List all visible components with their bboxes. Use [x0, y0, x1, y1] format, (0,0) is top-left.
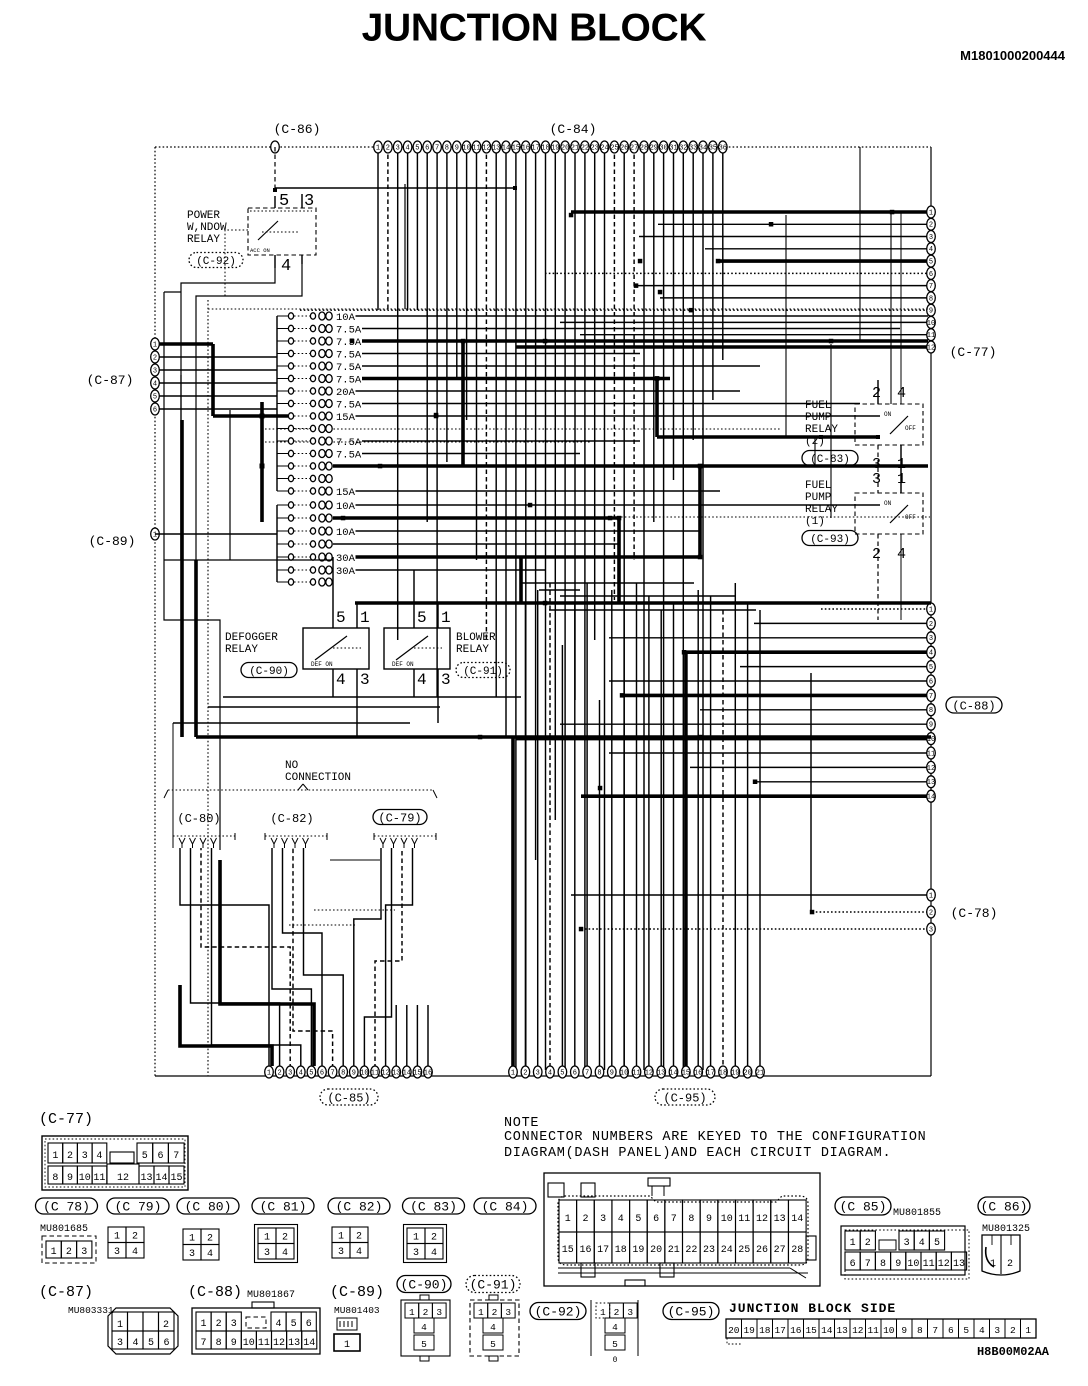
svg-text:8: 8	[929, 295, 933, 303]
svg-text:11: 11	[927, 750, 935, 758]
svg-text:(C-91): (C-91)	[470, 1278, 517, 1293]
svg-text:14: 14	[502, 144, 510, 152]
svg-text:10: 10	[360, 1069, 368, 1077]
svg-text:1: 1	[413, 1233, 419, 1244]
svg-text:5: 5	[415, 144, 419, 152]
svg-text:4: 4	[356, 1247, 362, 1258]
svg-text:PUMP: PUMP	[805, 492, 832, 504]
svg-text:8: 8	[929, 707, 933, 715]
svg-text:2: 2	[132, 1232, 138, 1243]
svg-text:(C-79): (C-79)	[378, 811, 421, 825]
svg-text:(C 78): (C 78)	[43, 1200, 90, 1215]
svg-text:9: 9	[895, 1259, 901, 1270]
svg-text:FUEL: FUEL	[805, 400, 831, 412]
svg-text:16: 16	[424, 1069, 432, 1077]
svg-text:3: 3	[82, 1151, 88, 1162]
svg-text:11: 11	[923, 1259, 935, 1270]
svg-text:14: 14	[927, 794, 935, 802]
svg-text:(C-87): (C-87)	[87, 373, 134, 388]
svg-text:2: 2	[872, 546, 881, 563]
svg-text:2: 2	[872, 385, 881, 402]
svg-text:2: 2	[423, 1307, 429, 1318]
svg-text:4: 4	[281, 257, 291, 276]
svg-text:(C-92): (C-92)	[196, 256, 236, 268]
svg-text:3: 3	[81, 1247, 87, 1258]
svg-text:12: 12	[381, 1069, 389, 1077]
svg-text:12: 12	[273, 1338, 285, 1349]
svg-text:7: 7	[929, 283, 933, 291]
svg-text:5: 5	[929, 664, 933, 672]
svg-text:10: 10	[620, 1069, 628, 1077]
svg-text:(C 84): (C 84)	[482, 1200, 529, 1215]
svg-text:1: 1	[376, 144, 380, 152]
svg-text:FUEL: FUEL	[805, 480, 831, 492]
svg-text:3: 3	[929, 635, 933, 643]
svg-text:12: 12	[852, 1325, 864, 1336]
svg-text:(C 79): (C 79)	[115, 1200, 162, 1215]
svg-text:(1): (1)	[805, 516, 825, 528]
svg-text:6: 6	[153, 406, 157, 414]
svg-text:25: 25	[610, 144, 618, 152]
svg-text:RELAY: RELAY	[805, 504, 838, 516]
svg-text:1: 1	[929, 209, 933, 217]
svg-text:29: 29	[650, 144, 658, 152]
svg-text:13: 13	[288, 1338, 300, 1349]
svg-text:RELAY: RELAY	[187, 234, 220, 246]
svg-text:3: 3	[441, 671, 451, 689]
svg-text:(C-89): (C-89)	[330, 1284, 384, 1301]
svg-text:3: 3	[360, 671, 370, 689]
svg-text:4: 4	[612, 1322, 618, 1333]
svg-text:13: 13	[492, 144, 500, 152]
svg-text:2: 2	[207, 1234, 213, 1245]
svg-text:(C-88): (C-88)	[952, 699, 995, 713]
svg-text:18: 18	[759, 1325, 771, 1336]
svg-text:(C-90): (C-90)	[249, 666, 289, 678]
svg-text:1: 1	[344, 1340, 350, 1351]
svg-text:1: 1	[478, 1307, 484, 1318]
svg-text:9: 9	[231, 1338, 237, 1349]
svg-text:16: 16	[790, 1325, 802, 1336]
svg-text:16: 16	[694, 1069, 702, 1077]
svg-text:PUMP: PUMP	[805, 412, 832, 424]
svg-text:2: 2	[1010, 1325, 1016, 1336]
svg-text:DEFOGGER: DEFOGGER	[225, 632, 278, 644]
svg-text:16: 16	[522, 144, 530, 152]
svg-text:POWER: POWER	[187, 210, 220, 222]
svg-text:4: 4	[299, 1069, 303, 1077]
svg-text:4: 4	[275, 1319, 281, 1330]
svg-text:2: 2	[163, 1320, 169, 1331]
svg-text:4: 4	[336, 671, 346, 689]
svg-text:7.5A: 7.5A	[336, 350, 362, 362]
svg-text:(C-78): (C-78)	[951, 906, 998, 921]
svg-text:14: 14	[155, 1173, 167, 1184]
svg-text:BLOWER: BLOWER	[456, 632, 496, 644]
svg-text:2: 2	[66, 1247, 72, 1258]
svg-text:(C-77): (C-77)	[39, 1111, 93, 1128]
svg-text:13: 13	[392, 1069, 400, 1077]
svg-text:11: 11	[371, 1069, 379, 1077]
svg-text:4: 4	[897, 385, 906, 402]
svg-text:2: 2	[386, 144, 390, 152]
svg-text:35: 35	[709, 144, 717, 152]
svg-text:4: 4	[431, 1248, 437, 1259]
svg-text:26: 26	[620, 144, 628, 152]
svg-text:1: 1	[338, 1232, 344, 1243]
svg-text:17: 17	[706, 1069, 714, 1077]
svg-text:3: 3	[872, 471, 881, 488]
svg-text:7: 7	[173, 1151, 179, 1162]
svg-text:13: 13	[657, 1069, 665, 1077]
svg-text:9: 9	[901, 1325, 907, 1336]
svg-text:DIAGRAM(DASH PANEL)AND EACH CI: DIAGRAM(DASH PANEL)AND EACH CIRCUIT DIAG…	[504, 1146, 891, 1161]
svg-text:10: 10	[79, 1173, 91, 1184]
svg-text:(C 81): (C 81)	[260, 1200, 307, 1215]
svg-text:7: 7	[435, 144, 439, 152]
svg-text:3: 3	[264, 1248, 270, 1259]
svg-text:34: 34	[699, 144, 707, 152]
svg-text:9: 9	[610, 1069, 614, 1077]
svg-text:6: 6	[653, 1214, 659, 1225]
svg-text:21: 21	[571, 144, 579, 152]
svg-text:M1801000200444: M1801000200444	[960, 48, 1066, 63]
svg-text:9: 9	[929, 308, 933, 316]
svg-text:17: 17	[597, 1245, 609, 1256]
svg-text:24: 24	[600, 144, 608, 152]
svg-text:5: 5	[153, 393, 157, 401]
svg-text:8: 8	[52, 1173, 58, 1184]
svg-text:(C-89): (C-89)	[89, 534, 136, 549]
svg-text:1: 1	[600, 1307, 606, 1318]
svg-text:10: 10	[243, 1338, 255, 1349]
svg-text:23: 23	[703, 1245, 715, 1256]
svg-text:16: 16	[579, 1245, 591, 1256]
svg-text:2: 2	[1007, 1259, 1013, 1270]
svg-text:5: 5	[148, 1338, 154, 1349]
svg-text:19: 19	[551, 144, 559, 152]
svg-text:2: 2	[153, 354, 157, 362]
svg-text:2: 2	[523, 1069, 527, 1077]
svg-text:14: 14	[303, 1338, 315, 1349]
svg-text:7.5A: 7.5A	[336, 400, 362, 412]
svg-text:5: 5	[142, 1151, 148, 1162]
svg-text:9: 9	[455, 144, 459, 152]
svg-text:13: 13	[836, 1325, 848, 1336]
svg-text:2: 2	[282, 1233, 288, 1244]
svg-text:12: 12	[645, 1069, 653, 1077]
svg-text:3: 3	[436, 1307, 442, 1318]
svg-text:1: 1	[200, 1319, 206, 1330]
svg-text:JUNCTION BLOCK: JUNCTION BLOCK	[362, 7, 707, 50]
svg-text:19: 19	[632, 1245, 644, 1256]
svg-text:4: 4	[417, 671, 427, 689]
svg-text:31: 31	[669, 144, 677, 152]
svg-text:6: 6	[320, 1069, 324, 1077]
svg-text:17: 17	[774, 1325, 785, 1336]
svg-text:4: 4	[979, 1325, 985, 1336]
svg-text:(C 86): (C 86)	[981, 1200, 1028, 1215]
svg-text:15A: 15A	[336, 487, 356, 499]
svg-text:1: 1	[51, 1247, 57, 1258]
svg-text:4: 4	[919, 1238, 925, 1249]
svg-text:MU801325: MU801325	[982, 1224, 1030, 1235]
svg-text:(C-95): (C-95)	[663, 1091, 706, 1105]
svg-text:3: 3	[929, 926, 933, 934]
svg-text:8: 8	[688, 1214, 694, 1225]
svg-text:4: 4	[132, 1338, 138, 1349]
svg-text:5: 5	[291, 1319, 297, 1330]
svg-text:H8B00M02AA: H8B00M02AA	[977, 1345, 1050, 1359]
svg-text:(C-80): (C-80)	[177, 812, 220, 826]
svg-text:8: 8	[597, 1069, 601, 1077]
svg-text:2: 2	[614, 1307, 620, 1318]
svg-text:11: 11	[93, 1173, 105, 1184]
svg-text:12: 12	[117, 1173, 129, 1184]
svg-text:13: 13	[927, 779, 935, 787]
svg-text:18: 18	[719, 1069, 727, 1077]
svg-text:10A: 10A	[336, 312, 356, 324]
svg-text:30A: 30A	[336, 566, 356, 578]
svg-text:(C-91): (C-91)	[463, 666, 503, 678]
svg-text:ON: ON	[884, 411, 892, 418]
svg-text:7.5A: 7.5A	[336, 375, 362, 387]
svg-text:CONNECTOR NUMBERS ARE KEYED TO: CONNECTOR NUMBERS ARE KEYED TO THE CONFI…	[504, 1130, 926, 1145]
svg-text:26: 26	[756, 1245, 768, 1256]
svg-text:6: 6	[157, 1151, 163, 1162]
svg-text:1: 1	[267, 1069, 271, 1077]
svg-text:MU803331: MU803331	[68, 1305, 114, 1316]
svg-text:13: 13	[953, 1259, 965, 1270]
svg-text:11: 11	[867, 1325, 879, 1336]
svg-text:4: 4	[96, 1151, 102, 1162]
svg-text:7: 7	[929, 693, 933, 701]
svg-text:15: 15	[562, 1245, 574, 1256]
svg-text:NO: NO	[285, 760, 299, 772]
svg-text:2: 2	[431, 1233, 437, 1244]
svg-text:RELAY: RELAY	[225, 644, 258, 656]
svg-text:4: 4	[618, 1214, 624, 1225]
svg-text:(C-84): (C-84)	[550, 122, 597, 137]
svg-text:(C-85): (C-85)	[327, 1091, 370, 1105]
svg-text:3: 3	[338, 1247, 344, 1258]
svg-text:1: 1	[511, 1069, 515, 1077]
svg-text:(C 85): (C 85)	[840, 1200, 887, 1215]
svg-text:3: 3	[189, 1249, 195, 1260]
svg-text:5: 5	[309, 1069, 313, 1077]
svg-text:7.5A: 7.5A	[336, 362, 362, 374]
svg-text:12: 12	[927, 765, 935, 773]
svg-text:3: 3	[505, 1307, 511, 1318]
svg-text:DEF ON: DEF ON	[392, 661, 414, 668]
svg-text:6: 6	[306, 1319, 312, 1330]
svg-text:15: 15	[512, 144, 520, 152]
svg-text:17: 17	[531, 144, 539, 152]
svg-text:(C-86): (C-86)	[274, 122, 321, 137]
svg-text:6: 6	[929, 678, 933, 686]
svg-text:13: 13	[774, 1214, 786, 1225]
svg-text:MU801855: MU801855	[893, 1208, 941, 1219]
svg-text:(C-95): (C-95)	[668, 1305, 715, 1320]
svg-text:(C 83): (C 83)	[410, 1200, 457, 1215]
svg-text:4: 4	[282, 1248, 288, 1259]
svg-text:7: 7	[585, 1069, 589, 1077]
svg-text:MU801403: MU801403	[334, 1305, 380, 1316]
svg-text:13: 13	[140, 1173, 152, 1184]
svg-text:OFF: OFF	[905, 425, 916, 432]
svg-text:DEF ON: DEF ON	[311, 661, 333, 668]
svg-text:9: 9	[929, 722, 933, 730]
svg-text:3: 3	[929, 234, 933, 242]
svg-text:(C-92): (C-92)	[535, 1305, 582, 1320]
svg-text:5: 5	[963, 1325, 969, 1336]
svg-text:6: 6	[929, 271, 933, 279]
svg-text:1: 1	[565, 1214, 571, 1225]
svg-text:1: 1	[153, 341, 157, 349]
svg-text:25: 25	[738, 1245, 750, 1256]
svg-text:5: 5	[929, 259, 933, 267]
svg-text:ON: ON	[884, 500, 892, 507]
svg-text:14: 14	[669, 1069, 677, 1077]
svg-text:2: 2	[929, 621, 933, 629]
svg-text:6: 6	[163, 1338, 169, 1349]
svg-text:11: 11	[258, 1338, 270, 1349]
svg-text:14: 14	[821, 1325, 833, 1336]
svg-text:15: 15	[805, 1325, 817, 1336]
svg-text:ACC ON: ACC ON	[250, 247, 270, 254]
svg-text:19: 19	[743, 1325, 755, 1336]
svg-text:MU801867: MU801867	[247, 1290, 295, 1301]
svg-text:7.5A: 7.5A	[336, 437, 362, 449]
svg-text:1: 1	[850, 1238, 856, 1249]
svg-text:8: 8	[445, 144, 449, 152]
svg-text:5: 5	[421, 1339, 427, 1350]
svg-text:15: 15	[682, 1069, 690, 1077]
svg-text:2: 2	[929, 909, 933, 917]
svg-text:7: 7	[671, 1214, 677, 1225]
svg-text:7.5A: 7.5A	[336, 450, 362, 462]
svg-text:4: 4	[929, 246, 933, 254]
svg-text:20: 20	[728, 1325, 740, 1336]
svg-text:7: 7	[330, 1069, 334, 1077]
svg-text:2: 2	[865, 1238, 871, 1249]
svg-text:3: 3	[600, 1214, 606, 1225]
svg-text:10: 10	[721, 1214, 733, 1225]
svg-text:7.5A: 7.5A	[336, 325, 362, 337]
svg-text:15: 15	[413, 1069, 421, 1077]
svg-text:14: 14	[403, 1069, 411, 1077]
svg-text:1: 1	[1025, 1325, 1031, 1336]
svg-text:RELAY: RELAY	[805, 424, 838, 436]
svg-text:32: 32	[679, 144, 687, 152]
svg-text:5: 5	[490, 1339, 496, 1350]
svg-text:28: 28	[640, 144, 648, 152]
svg-text:11: 11	[738, 1214, 750, 1225]
svg-text:(C-77): (C-77)	[950, 345, 997, 360]
svg-text:5: 5	[279, 192, 289, 211]
svg-text:8: 8	[341, 1069, 345, 1077]
svg-text:6: 6	[850, 1259, 856, 1270]
svg-text:3: 3	[117, 1338, 123, 1349]
svg-text:4: 4	[490, 1322, 496, 1333]
svg-text:5: 5	[417, 609, 427, 627]
svg-text:12: 12	[756, 1214, 768, 1225]
svg-text:6: 6	[948, 1325, 954, 1336]
svg-text:(C-88): (C-88)	[188, 1284, 242, 1301]
svg-text:6: 6	[425, 144, 429, 152]
svg-text:MU801685: MU801685	[40, 1224, 88, 1235]
svg-text:3: 3	[288, 1069, 292, 1077]
svg-text:(C-83): (C-83)	[810, 454, 850, 466]
svg-text:5: 5	[612, 1339, 618, 1350]
svg-text:14: 14	[791, 1214, 803, 1225]
svg-text:2: 2	[492, 1307, 498, 1318]
svg-text:1: 1	[117, 1320, 123, 1331]
svg-text:5: 5	[635, 1214, 641, 1225]
svg-text:11: 11	[927, 332, 935, 340]
svg-text:33: 33	[689, 144, 697, 152]
svg-text:4: 4	[548, 1069, 552, 1077]
svg-text:20: 20	[561, 144, 569, 152]
svg-text:18: 18	[615, 1245, 627, 1256]
svg-text:3: 3	[231, 1319, 237, 1330]
svg-text:RELAY: RELAY	[456, 644, 489, 656]
svg-text:2: 2	[929, 222, 933, 230]
svg-text:27: 27	[774, 1245, 786, 1256]
svg-text:4: 4	[405, 144, 409, 152]
svg-text:7: 7	[865, 1259, 871, 1270]
svg-text:2: 2	[216, 1319, 222, 1330]
svg-text:9: 9	[67, 1173, 73, 1184]
svg-text:4: 4	[132, 1247, 138, 1258]
svg-text:23: 23	[590, 144, 598, 152]
svg-text:11: 11	[632, 1069, 640, 1077]
svg-text:4: 4	[929, 650, 933, 658]
svg-text:2: 2	[277, 1069, 281, 1077]
svg-text:36: 36	[719, 144, 727, 152]
svg-text:20A: 20A	[336, 387, 356, 399]
svg-text:7: 7	[200, 1338, 206, 1349]
svg-text:2: 2	[356, 1232, 362, 1243]
svg-text:1: 1	[929, 892, 933, 900]
svg-text:24: 24	[721, 1245, 733, 1256]
svg-text:1: 1	[153, 531, 157, 539]
svg-text:(C 82): (C 82)	[336, 1200, 383, 1215]
svg-text:7: 7	[932, 1325, 938, 1336]
svg-text:8: 8	[917, 1325, 923, 1336]
svg-text:3: 3	[413, 1248, 419, 1259]
svg-text:4: 4	[897, 546, 906, 563]
svg-text:5: 5	[336, 609, 346, 627]
svg-text:20: 20	[743, 1069, 751, 1077]
svg-text:2: 2	[67, 1151, 73, 1162]
svg-text:3: 3	[114, 1247, 120, 1258]
svg-text:(C-93): (C-93)	[810, 534, 850, 546]
svg-text:4: 4	[153, 380, 157, 388]
svg-text:0: 0	[613, 1356, 618, 1365]
svg-text:3: 3	[396, 144, 400, 152]
svg-text:3: 3	[994, 1325, 1000, 1336]
svg-text:CONNECTION: CONNECTION	[285, 772, 351, 784]
svg-text:21: 21	[668, 1245, 680, 1256]
svg-text:1: 1	[189, 1234, 195, 1245]
svg-text:(C-87): (C-87)	[39, 1284, 93, 1301]
svg-text:5: 5	[560, 1069, 564, 1077]
svg-text:2: 2	[582, 1214, 588, 1225]
svg-text:18: 18	[541, 144, 549, 152]
svg-text:30A: 30A	[336, 553, 356, 565]
svg-text:6: 6	[573, 1069, 577, 1077]
